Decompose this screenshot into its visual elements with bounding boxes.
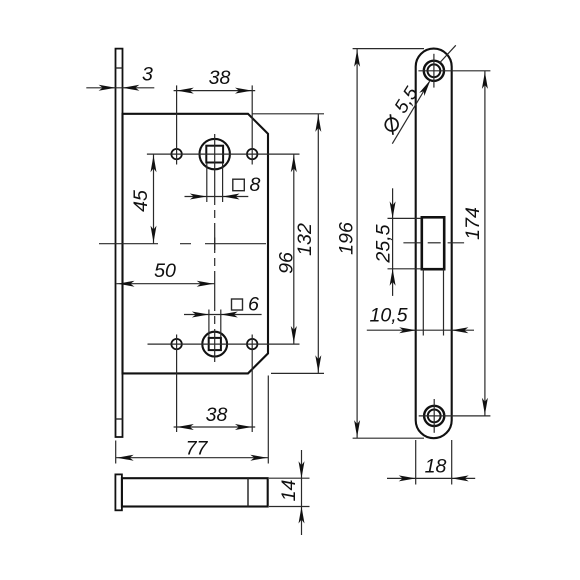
bottom view faceplate end cap xyxy=(115,474,122,510)
dimension 14 extension lines xyxy=(269,477,310,479)
bottom screw cross horizontal + 174 extension xyxy=(419,415,491,417)
dimension 25,5 xyxy=(392,188,394,296)
bottom view lock body xyxy=(122,478,268,506)
strip tick top xyxy=(116,67,123,69)
svg-text:50: 50 xyxy=(154,260,176,282)
svg-text:45: 45 xyxy=(130,190,152,212)
upper follower circle xyxy=(200,139,230,169)
dimension 3 faceplate thickness xyxy=(86,87,154,89)
dimension 196 extension lines xyxy=(353,48,424,50)
lower follower circle xyxy=(202,332,227,357)
vertical centerline through followers xyxy=(214,134,216,362)
dimension 6 square xyxy=(184,314,262,316)
dimension 18 extension lines xyxy=(415,440,417,485)
dimension 50 backset xyxy=(117,283,215,285)
dimension 38 bottom xyxy=(174,426,256,428)
svg-text:38: 38 xyxy=(206,404,228,426)
dimension 38 top xyxy=(174,90,256,92)
svg-text:196: 196 xyxy=(336,222,358,255)
upper hole centerline horizontal xyxy=(147,153,300,155)
svg-text:18: 18 xyxy=(425,456,447,478)
diameter 5,5 label xyxy=(379,83,423,137)
latch opening bold rect xyxy=(422,217,444,269)
lower hole centerline horizontal xyxy=(148,343,300,345)
bottom screw hole outer xyxy=(424,406,444,426)
dimension 77 extension lines xyxy=(115,441,117,464)
dimension 196 xyxy=(356,49,358,439)
lower hole extension lines to 38 dim xyxy=(176,335,178,433)
upper hole vertical ticks / 38 extension lines xyxy=(176,85,178,164)
lower square hole 6mm xyxy=(209,338,221,350)
centerline cross tick xyxy=(214,238,216,251)
dimension 10,5 xyxy=(367,329,474,331)
svg-text:14: 14 xyxy=(278,480,300,502)
svg-text:77: 77 xyxy=(186,438,209,460)
bottom screw hole inner xyxy=(428,410,441,423)
upper square extension lines xyxy=(206,163,208,202)
svg-text:10,5: 10,5 xyxy=(369,305,407,327)
lower square extension lines xyxy=(208,310,210,338)
dimension 14 xyxy=(301,450,303,535)
svg-text:8: 8 xyxy=(250,174,261,196)
dimension 18 xyxy=(387,477,475,479)
lock body outline with chamfered right corners xyxy=(123,114,269,374)
upper mounting hole xyxy=(247,149,257,159)
svg-text:38: 38 xyxy=(209,67,231,89)
lower mounting hole xyxy=(171,339,181,349)
top screw cross vertical xyxy=(433,54,435,88)
top screw hole outer xyxy=(424,61,444,81)
leader extension beyond hole xyxy=(440,45,456,63)
top screw hole inner xyxy=(428,64,441,77)
dimension 132 xyxy=(317,114,319,374)
dimension 96 extension: reuse centerlines; dim line xyxy=(293,154,295,344)
latch slot extension lines xyxy=(422,269,424,335)
latch centerline segments xyxy=(403,242,421,244)
bottom view latch housing line xyxy=(247,478,249,506)
faceplate front outline rounded xyxy=(416,49,452,439)
faceplate strip (edge view) xyxy=(116,49,123,437)
dimension 8 square xyxy=(185,196,249,198)
upper mounting hole xyxy=(171,149,181,159)
square symbol for 6 xyxy=(232,299,243,310)
bottom screw cross vertical xyxy=(433,399,435,433)
diameter 5,5 leader line xyxy=(392,82,429,144)
dimension 132 extension lines xyxy=(252,113,324,115)
svg-text:25,5: 25,5 xyxy=(373,224,395,263)
top screw cross horizontal + 174 extension xyxy=(418,70,490,72)
dimension 77 xyxy=(116,457,269,459)
dimension 45 xyxy=(153,154,155,244)
square symbol for 8 xyxy=(233,179,245,191)
svg-text:6: 6 xyxy=(248,293,259,315)
upper square hole 8mm xyxy=(206,146,223,163)
mid horizontal centerline dashed xyxy=(99,243,266,245)
svg-text:132: 132 xyxy=(294,223,316,256)
lower mounting hole xyxy=(247,339,257,349)
dimension 25,5 extension lines xyxy=(388,217,422,219)
svg-text:3: 3 xyxy=(142,64,153,86)
dimension 174 xyxy=(484,71,486,416)
strip tick bottom xyxy=(116,418,123,420)
svg-text:174: 174 xyxy=(462,207,484,240)
